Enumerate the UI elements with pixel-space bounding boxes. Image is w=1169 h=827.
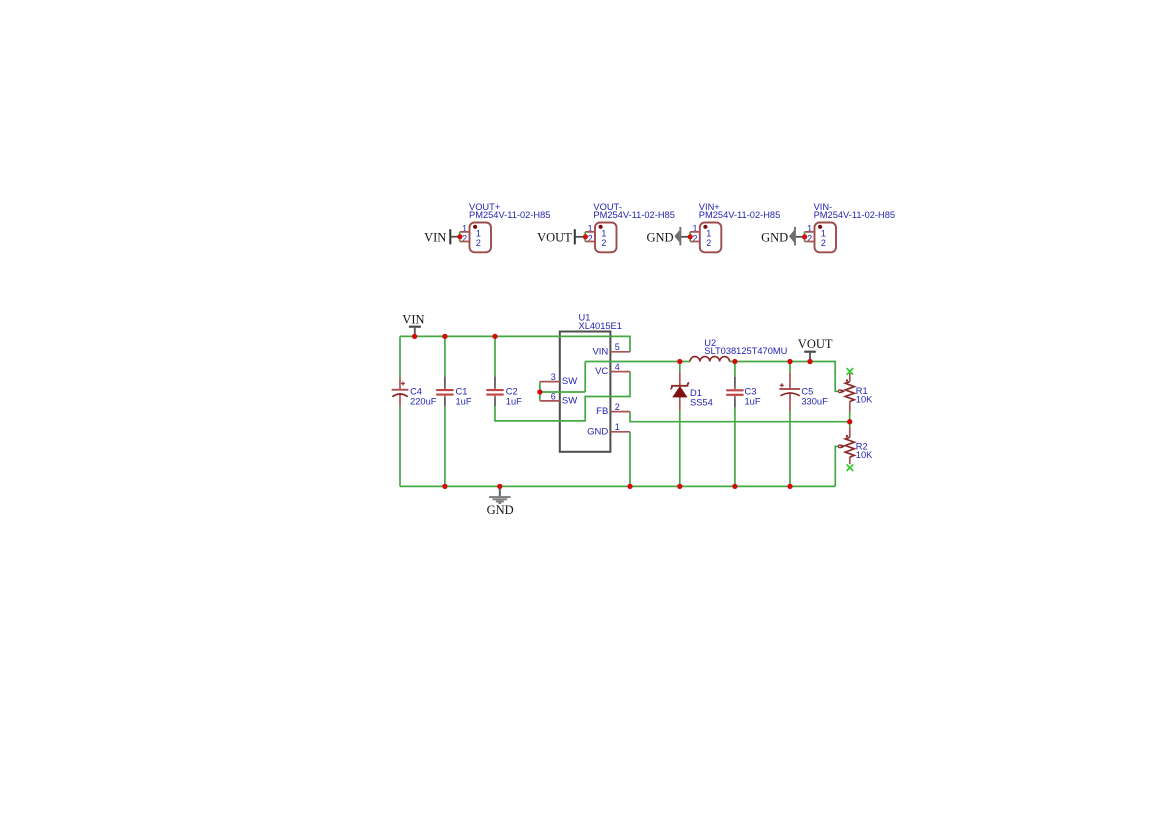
svg-text:GND: GND (587, 426, 608, 437)
svg-text:10K: 10K (856, 395, 873, 405)
svg-text:1: 1 (615, 422, 620, 432)
svg-text:SW: SW (562, 396, 577, 407)
svg-text:5: 5 (615, 342, 620, 352)
op-amp U1 (560, 312, 622, 451)
junction node C5 top (787, 359, 792, 364)
capacitor C2 (486, 376, 522, 406)
wire VIN top rail (400, 336, 630, 377)
power flag VOUT (798, 337, 833, 362)
capacitor C3 (726, 377, 761, 408)
svg-text:GND: GND (761, 230, 788, 244)
junction node C1 top (442, 334, 447, 339)
svg-text:C4: C4 (410, 386, 422, 396)
svg-text:1uF: 1uF (745, 396, 761, 406)
junction node P1 (457, 234, 462, 239)
capacitor C1 (436, 376, 472, 406)
junction node VIN flag (412, 334, 417, 339)
svg-text:1uF: 1uF (456, 396, 472, 406)
wire U1 GND pin to rail (629, 432, 631, 487)
junction node U1 GND (627, 484, 632, 489)
svg-text:D1: D1 (690, 388, 702, 398)
svg-text:VIN: VIN (402, 312, 424, 326)
junction node C3 bottom (732, 484, 737, 489)
capacitor C4 (392, 377, 437, 407)
connector P1 VOUT+ (460, 202, 551, 252)
diode D1 (670, 372, 712, 411)
svg-text:1: 1 (706, 228, 711, 238)
svg-text:VIN: VIN (592, 346, 608, 357)
junction node VOUT flag (807, 359, 812, 364)
junction node D1 top (677, 359, 682, 364)
junction node GND symbol (497, 484, 502, 489)
svg-text:2: 2 (706, 238, 711, 248)
svg-text:VC: VC (595, 366, 608, 377)
svg-text:VOUT: VOUT (537, 230, 572, 244)
svg-text:1: 1 (476, 228, 481, 238)
junction node C2 top (492, 334, 497, 339)
svg-text:1: 1 (601, 228, 606, 238)
svg-text:FB: FB (596, 406, 608, 417)
svg-text:2: 2 (615, 402, 620, 412)
svg-text:PM254V-11-02-H85: PM254V-11-02-H85 (593, 210, 674, 220)
junction node C3 top (732, 359, 737, 364)
ground symbol GND (487, 486, 514, 517)
power flag VIN (402, 312, 424, 336)
wire SW net (540, 362, 839, 401)
wire FB net (630, 412, 850, 428)
junction node P4 (802, 234, 807, 239)
junction node SW pins (537, 389, 542, 394)
svg-text:GND: GND (487, 503, 514, 517)
junction node D1 bottom (677, 484, 682, 489)
connector P2 VOUT- (585, 202, 675, 252)
junction node P2 (583, 234, 588, 239)
junction node FB divider (847, 419, 852, 424)
wire GND bottom rail (400, 406, 839, 486)
svg-text:GND: GND (647, 230, 674, 244)
svg-text:C3: C3 (745, 386, 757, 396)
svg-text:4: 4 (615, 362, 620, 372)
junction node C1 bottom (442, 484, 447, 489)
connector P3 VIN+ (690, 202, 780, 252)
svg-text:SS54: SS54 (690, 398, 713, 408)
pin stubs U1 (540, 352, 630, 432)
svg-text:PM254V-11-02-H85: PM254V-11-02-H85 (814, 210, 895, 220)
net flag GND (connector P4) (761, 227, 804, 246)
svg-text:2: 2 (821, 238, 826, 248)
svg-text:C2: C2 (506, 386, 518, 396)
svg-text:C5: C5 (801, 386, 813, 396)
svg-text:10K: 10K (856, 450, 873, 460)
svg-text:XL4015E1: XL4015E1 (579, 321, 622, 331)
net flag GND (connector P3) (647, 227, 691, 246)
capacitor C5 (779, 373, 828, 412)
svg-text:6: 6 (551, 391, 556, 401)
connector P4 VIN- (805, 202, 896, 252)
resistor R1 (839, 368, 874, 412)
net flag VIN (connector P1) (424, 229, 460, 244)
svg-text:C1: C1 (456, 386, 468, 396)
svg-text:PM254V-11-02-H85: PM254V-11-02-H85 (469, 210, 550, 220)
svg-text:220uF: 220uF (410, 396, 437, 406)
svg-text:SW: SW (562, 376, 577, 387)
svg-text:VIN: VIN (424, 230, 446, 244)
svg-text:1uF: 1uF (506, 396, 522, 406)
inductor U2 (690, 338, 787, 361)
resistor R2 (839, 427, 874, 471)
svg-text:PM254V-11-02-H85: PM254V-11-02-H85 (699, 210, 780, 220)
svg-text:2: 2 (476, 238, 481, 248)
junction node C5 bottom (787, 484, 792, 489)
svg-text:1: 1 (821, 228, 826, 238)
svg-text:2: 2 (601, 238, 606, 248)
svg-text:SLT038125T470MU: SLT038125T470MU (704, 346, 787, 356)
junction node P3 (688, 234, 693, 239)
svg-text:330uF: 330uF (801, 396, 828, 406)
net flag VOUT (connector P2) (537, 229, 585, 244)
wire VC net (495, 372, 630, 421)
svg-text:3: 3 (551, 372, 556, 382)
svg-text:VOUT: VOUT (798, 337, 833, 351)
